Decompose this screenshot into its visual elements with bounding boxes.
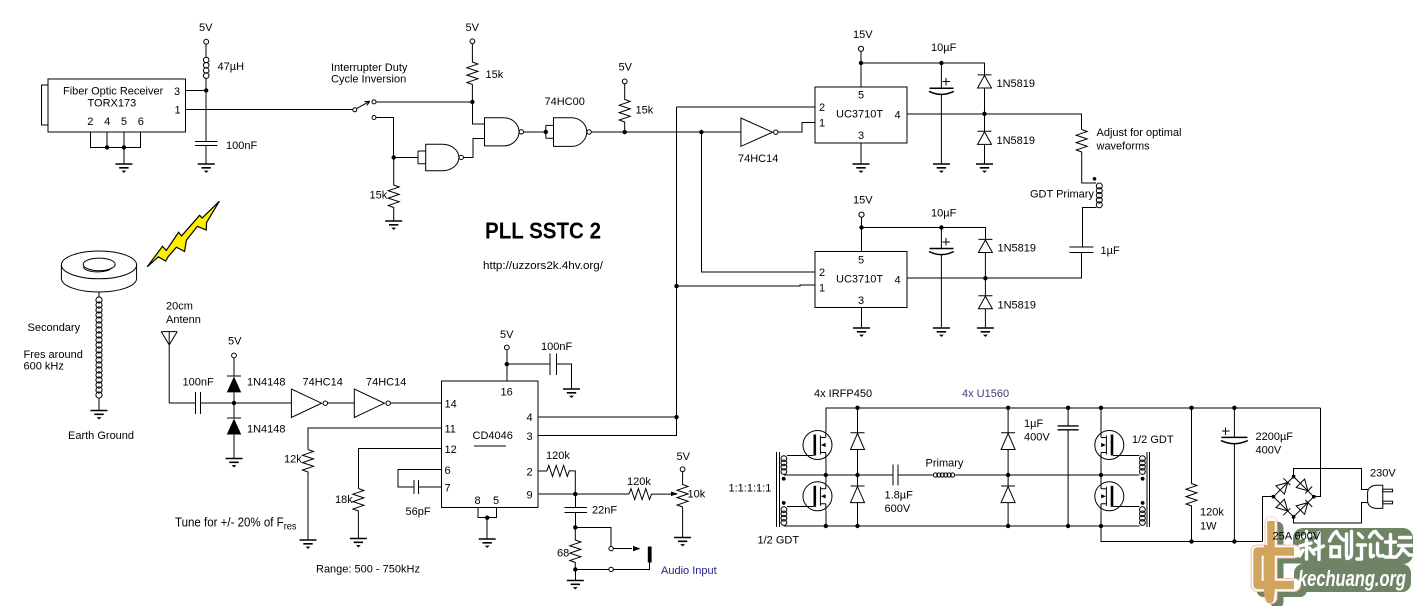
wire gate lead Q2 <box>787 506 814 508</box>
wire pin4 upper <box>907 114 1082 130</box>
wire node to 100nF <box>205 91 207 142</box>
ground (U4 pin3) <box>853 164 870 173</box>
wire node to NAND-inv bracket <box>394 156 418 158</box>
label 74HC14 U1a <box>303 377 343 389</box>
wire 15V lower to node <box>861 217 863 227</box>
wire U1b to pin14 <box>390 402 441 404</box>
label 15V upper <box>853 29 873 41</box>
svg-text:12k: 12k <box>284 454 302 466</box>
resistor 120k (pin2) <box>547 465 576 494</box>
value 12k <box>284 454 302 466</box>
value 120k pin9 <box>627 476 651 488</box>
wire pin3 upper to ground <box>860 143 862 164</box>
wire U3a out to upper driver pin1 <box>778 122 815 132</box>
terminal 5V circle clamp <box>232 353 237 358</box>
value 100nF CD4046 <box>541 341 572 353</box>
wire to jack tip <box>575 527 611 546</box>
diode 1N4148 upper <box>227 376 241 403</box>
capacitor 1uF (GDT) <box>1070 247 1094 252</box>
wire jack tip arrow <box>613 548 632 550</box>
svg-text:600V: 600V <box>885 503 911 515</box>
capacitor 1.8uF 600V <box>893 464 898 485</box>
svg-text:5V: 5V <box>228 336 242 348</box>
svg-text:8: 8 <box>475 495 481 507</box>
node pin5 bus dot <box>122 145 126 149</box>
svg-text:100nF: 100nF <box>183 377 214 389</box>
label 20cm Antenna <box>166 301 201 327</box>
polarity dot left lower <box>782 501 786 505</box>
svg-text:4: 4 <box>527 412 533 424</box>
node Q2 source junction <box>824 524 828 528</box>
svg-text:600 kHz: 600 kHz <box>24 361 64 373</box>
svg-text:waveforms: waveforms <box>1096 141 1151 153</box>
resistor 120k (pin9) <box>629 489 677 500</box>
wire throw1 to 15k node <box>376 101 472 103</box>
diode 1N4148 lower <box>227 403 241 458</box>
capacitor 1uF 400V <box>1058 408 1079 526</box>
svg-text:1/2 GDT: 1/2 GDT <box>758 535 800 547</box>
node pin4/diodes junction lower <box>983 276 987 280</box>
node 1uF bottom rail <box>1066 524 1070 528</box>
wire middle rail left <box>784 474 893 476</box>
wire bridge DC- <box>1262 497 1273 542</box>
resistor 15k pullup B <box>619 84 630 132</box>
wire pin11 to 12k <box>308 428 441 449</box>
svg-text:14: 14 <box>445 399 457 411</box>
wire junction to 74HC14 <box>234 402 291 404</box>
winding GDT right lower <box>1140 507 1146 526</box>
terminal 5V circle CD4046 <box>504 345 509 350</box>
wire Q3 drain <box>1100 408 1102 431</box>
wire pin4 lower <box>907 252 1082 278</box>
node Q4 source junction <box>1099 524 1103 528</box>
svg-text:Antenn: Antenn <box>166 314 201 326</box>
value 10uF upper <box>931 42 957 54</box>
label 5V A <box>466 22 480 34</box>
wire 100nF to junction <box>201 402 234 404</box>
label 74HC14 U3a <box>738 153 778 165</box>
svg-text:Secondary: Secondary <box>28 322 81 334</box>
label 4x IRFP450 <box>814 388 872 400</box>
jack body bar <box>648 547 652 563</box>
gate 74HC14 U1a <box>291 389 327 418</box>
label 5V CD4046 <box>500 329 514 341</box>
svg-text:Primary: Primary <box>926 458 964 470</box>
node pin3 junction <box>204 88 208 92</box>
wire 15V rail lower <box>862 228 986 252</box>
wire pin9 <box>538 493 629 495</box>
svg-text:Interrupter Duty: Interrupter Duty <box>331 62 408 74</box>
wire Q2 drain <box>825 475 827 482</box>
wire pin12 to 18k <box>358 449 441 489</box>
svg-text:5V: 5V <box>677 451 691 463</box>
bridge diode TR <box>1296 479 1312 493</box>
inductor 47uH <box>203 57 209 78</box>
wire Q4 source <box>1100 511 1102 526</box>
label 4x U1560 <box>962 388 1009 400</box>
svg-text:4x U1560: 4x U1560 <box>962 388 1009 400</box>
svg-text:Audio Input: Audio Input <box>661 565 717 577</box>
label Primary <box>926 458 964 470</box>
winding GDT left lower <box>781 507 787 526</box>
svg-text:TORX173: TORX173 <box>88 98 137 110</box>
watermark char tan <box>1385 535 1412 558</box>
svg-text:2: 2 <box>87 116 93 128</box>
capacitor 10uF upper <box>929 63 954 164</box>
wire gate lead Q4 <box>1113 506 1140 508</box>
terminal 5V circle pot <box>680 467 685 472</box>
watermark char ke <box>1300 532 1324 560</box>
wire Q2 source <box>825 511 827 526</box>
gate NAND U2c <box>546 118 592 147</box>
wire 5V to inductor <box>205 44 207 57</box>
terminal 15V circle lower <box>859 212 864 217</box>
pin 2 label upper <box>819 102 825 114</box>
svg-text:1N4148: 1N4148 <box>247 424 286 436</box>
ground (1N5819 upper) <box>976 164 993 173</box>
wire 15V to node <box>860 51 862 63</box>
inductor GDT Primary <box>1096 183 1102 208</box>
value 1uF GDT <box>1101 245 1120 257</box>
IC CD4046 box <box>441 381 538 508</box>
svg-text:Fres around: Fres around <box>24 349 83 361</box>
node 120k bottom rail <box>1189 539 1193 543</box>
node 1uF top rail <box>1066 406 1070 410</box>
pin 1 label upper <box>819 118 825 130</box>
ground (100nF TORX) <box>198 164 215 173</box>
ground (pot) <box>674 538 691 547</box>
label GDT Primary <box>1030 189 1094 201</box>
pin 5 label <box>493 495 499 507</box>
ground (audio) <box>567 581 584 590</box>
switch throw 1 terminal <box>372 100 376 104</box>
svg-text:1: 1 <box>175 104 181 116</box>
ground (15k pulldown) <box>385 221 402 230</box>
svg-text:5V: 5V <box>500 329 514 341</box>
node 15V upper junction <box>859 61 863 65</box>
node NAND-inv input junction <box>392 155 396 159</box>
value 1N5819 lower-bottom <box>998 300 1037 312</box>
switch SW1 common terminal <box>353 108 357 112</box>
polarity + 2200uF <box>1222 427 1229 434</box>
gate NAND U2a (inverter-wired) <box>418 144 463 170</box>
wire left bus (VCO signal) <box>677 107 816 417</box>
svg-text:5: 5 <box>493 495 499 507</box>
svg-text:20cm: 20cm <box>166 301 193 313</box>
wire U2c out to 74HC14 input <box>591 131 741 133</box>
potentiometer 10k <box>677 472 688 537</box>
wire bus to ground <box>123 147 125 163</box>
plug prong 2 <box>1383 501 1393 504</box>
node Q1 source junction <box>824 473 828 477</box>
node 15V lower junction <box>859 225 863 229</box>
label Secondary <box>28 322 81 334</box>
pin 2 label lower <box>819 267 825 279</box>
diode 1N5819 upper-top <box>978 75 992 114</box>
svg-text:74HC14: 74HC14 <box>738 153 778 165</box>
watermark char chuang <box>1330 532 1352 559</box>
node switch/15k junction <box>470 100 474 104</box>
gate 74HC14 U3a <box>741 118 778 146</box>
polarity dot GDT primary <box>1093 177 1097 181</box>
label 74HC00 <box>545 96 585 108</box>
wire 15V rail upper <box>861 63 985 87</box>
pin 16 label <box>501 387 513 399</box>
svg-text:UC3710T: UC3710T <box>836 109 883 121</box>
wire 100nF to ground <box>557 364 572 388</box>
transformer GDT left core <box>777 452 780 527</box>
svg-text:9: 9 <box>527 490 533 502</box>
value 1N5819 upper-bottom <box>997 135 1036 147</box>
transistor Q1 IRFP450 upper-left <box>803 431 832 460</box>
polarity + lower 10uF <box>943 238 951 245</box>
value 56pF <box>406 506 431 518</box>
wire GDT primary to 1uF <box>1083 207 1097 247</box>
svg-text:120k: 120k <box>546 450 570 462</box>
svg-text:15k: 15k <box>636 105 654 117</box>
wire pin6 pin7 bracket <box>398 470 441 488</box>
terminal jack tip circle <box>609 546 613 550</box>
wire toroid to secondary <box>98 292 100 298</box>
label 1/2 GDT right <box>1132 434 1174 446</box>
label Fres around 600 kHz <box>24 349 83 373</box>
label TORX173 <box>88 98 137 110</box>
arrow jack tip <box>633 546 641 551</box>
node 5V (pullup A) <box>486 69 504 81</box>
wire pins 8 5 to ground <box>478 508 497 539</box>
node 15k/signal junction <box>623 130 627 134</box>
diode 1N5819 lower-bottom <box>978 278 992 327</box>
svg-text:100nF: 100nF <box>226 140 257 152</box>
value 22nF <box>592 505 617 517</box>
svg-text:http://uzzors2k.4hv.org/: http://uzzors2k.4hv.org/ <box>483 260 604 272</box>
svg-text:Range: 500 - 750kHz: Range: 500 - 750kHz <box>316 564 420 576</box>
svg-text:1N5819: 1N5819 <box>997 78 1036 90</box>
IC UC3710T lower box <box>815 252 907 308</box>
svg-text:1: 1 <box>819 118 825 130</box>
node right-bus top junction <box>699 130 703 134</box>
svg-text:400V: 400V <box>1256 445 1282 457</box>
pin 2 label <box>527 467 533 479</box>
antenna symbol <box>161 332 177 403</box>
svg-text:18k: 18k <box>335 494 353 506</box>
pin 3 label <box>527 431 533 443</box>
gate 74HC14 U1b <box>354 389 390 418</box>
pin 4 label lower <box>895 275 901 287</box>
watermark kechuang.org <box>1298 566 1406 591</box>
bridge corner dots <box>1272 475 1316 519</box>
svg-text:4: 4 <box>895 110 901 122</box>
svg-text:3: 3 <box>858 295 864 307</box>
value 68 <box>557 548 569 560</box>
bridge diode BR <box>1296 500 1312 514</box>
label Audio Input <box>661 565 717 577</box>
svg-text:kechuang.org: kechuang.org <box>1298 566 1406 591</box>
label Tune for +/- 20% of Fres <box>175 516 297 533</box>
wire Q3 source <box>1100 460 1102 476</box>
wire 68 to ground <box>574 569 576 580</box>
svg-text:12: 12 <box>445 444 457 456</box>
wiper arrow into pot <box>671 492 678 497</box>
underline CD4046 <box>474 445 506 447</box>
label CD4046 <box>473 430 513 442</box>
ground (12k) <box>300 540 317 549</box>
capacitor 100nF (TORX) <box>195 141 218 145</box>
svg-text:Adjust for optimal: Adjust for optimal <box>1097 127 1182 139</box>
lightning bolt <box>147 201 219 267</box>
wire NAND U2a out to U2b input2 <box>463 139 484 158</box>
polarity dot right lower <box>1141 501 1145 505</box>
value 1.8uF 600V <box>885 490 914 516</box>
pin 7 label <box>445 483 451 495</box>
svg-text:1N5819: 1N5819 <box>998 300 1037 312</box>
bridge diode TL <box>1276 478 1290 494</box>
wire top rail DC+ <box>826 408 1321 431</box>
node antenna junction <box>232 401 236 405</box>
svg-text:5: 5 <box>121 116 127 128</box>
node left diode mid rail <box>855 473 859 477</box>
diode 1N5819 upper-bottom <box>978 114 992 164</box>
IC fiber optic receiver TORX173 box <box>48 79 186 132</box>
watermark glyph tan <box>1258 521 1295 600</box>
pin 3 label upper <box>858 130 864 142</box>
svg-text:5: 5 <box>858 90 864 102</box>
transformer GDT right core <box>1147 452 1150 527</box>
svg-text:6: 6 <box>138 116 144 128</box>
pin 3 label lower <box>858 295 864 307</box>
wire pin 1 to switch <box>186 108 353 110</box>
label UC3710T lower <box>836 274 883 286</box>
svg-text:Cycle Inversion: Cycle Inversion <box>331 74 406 86</box>
pin numbers 2 4 5 6 <box>87 116 144 128</box>
svg-text:10k: 10k <box>688 489 706 501</box>
ground (10uF upper) <box>933 164 950 173</box>
wire pin16 node to 100nF <box>507 363 550 365</box>
svg-text:Earth Ground: Earth Ground <box>68 430 134 442</box>
wire bottom rail <box>784 525 1139 527</box>
node 68/ground junction <box>573 567 577 571</box>
svg-text:120k: 120k <box>1200 507 1224 519</box>
toroid topload <box>61 251 136 292</box>
node right diode mid rail <box>1006 473 1010 477</box>
label 15V lower <box>853 195 873 207</box>
label 74HC14 U1b <box>366 377 406 389</box>
wire 5V to pin16 <box>506 350 508 381</box>
wire bottom rail to DC- rail <box>1101 526 1262 542</box>
label 1/2 GDT left <box>758 535 800 547</box>
polarity + upper 10uF <box>943 78 951 85</box>
wire gate lead Q3 <box>1113 455 1140 457</box>
wire 5V to diode <box>233 358 235 376</box>
svg-text:74HC00: 74HC00 <box>545 96 585 108</box>
diode 1N5819 lower-top <box>978 239 992 278</box>
wire pin4 to bus <box>538 416 676 418</box>
wire junction to NAND input1 <box>472 102 484 124</box>
svg-text:1.8µF: 1.8µF <box>885 490 914 502</box>
wire gate lead Q1 <box>787 455 814 457</box>
svg-text:Fiber Optic Receiver: Fiber Optic Receiver <box>63 86 164 98</box>
value 1uF 400V <box>1024 418 1050 444</box>
svg-text:1/2 GDT: 1/2 GDT <box>1132 434 1174 446</box>
svg-text:5V: 5V <box>619 62 633 74</box>
resistor 68 <box>570 527 581 569</box>
resistor adjust (GDT damping) <box>1076 130 1087 184</box>
svg-text:1:1:1:1:1: 1:1:1:1:1 <box>729 483 772 495</box>
label Fiber Optic Receiver <box>63 86 164 98</box>
wire pin 3 to node <box>186 90 207 92</box>
node pins85 junction <box>485 516 489 520</box>
watermark green blob row1 <box>1293 528 1413 564</box>
wire inductor to node <box>205 78 207 90</box>
title PLL SSTC 2 <box>485 218 601 244</box>
capacitor 10uF lower <box>929 228 954 328</box>
resistor 12k <box>303 450 314 540</box>
svg-text:11: 11 <box>445 424 456 436</box>
node pin4 bus junction <box>674 415 678 419</box>
diode U1560 left-bottom <box>851 475 865 526</box>
svg-text:1µF: 1µF <box>1101 245 1120 257</box>
transistor Q3 IRFP450 upper-right <box>1095 431 1124 460</box>
wire middle rail right <box>898 474 1139 476</box>
node 10uF top junction upper <box>939 61 943 65</box>
watermark green blob row2 <box>1294 564 1411 592</box>
transistor Q2 IRFP450 lower-left <box>803 482 832 511</box>
node 120k top rail <box>1189 406 1193 410</box>
resistor 120k 1W <box>1186 408 1197 542</box>
ground (100nF CD4046) <box>563 389 580 398</box>
svg-text:22nF: 22nF <box>592 505 617 517</box>
svg-text:4: 4 <box>104 116 110 128</box>
pin 5 label lower <box>858 255 864 267</box>
svg-text:15V: 15V <box>853 195 873 207</box>
svg-text:1µF: 1µF <box>1024 418 1043 430</box>
svg-text:3: 3 <box>858 130 864 142</box>
svg-text:2: 2 <box>527 467 533 479</box>
terminal jack sleeve circle <box>609 567 613 571</box>
value 10k <box>688 489 706 501</box>
wire throw2 to lower node <box>376 118 394 158</box>
value 1N5819 lower-top <box>998 243 1037 255</box>
svg-text:2: 2 <box>819 102 825 114</box>
terminal 15V circle upper <box>858 46 863 51</box>
label Adjust for optimal waveforms <box>1096 127 1182 153</box>
value 18k <box>335 494 353 506</box>
svg-text:230V: 230V <box>1370 468 1396 480</box>
svg-text:1N4148: 1N4148 <box>247 377 286 389</box>
svg-text:2: 2 <box>819 267 825 279</box>
diode U1560 right-top <box>1001 408 1015 475</box>
svg-text:4x IRFP450: 4x IRFP450 <box>814 388 872 400</box>
wire left bus to lower driver pin1 <box>677 285 816 286</box>
node pin4 bus dot <box>105 145 109 149</box>
node pin16 junction <box>505 362 509 366</box>
svg-text:3: 3 <box>174 86 180 98</box>
wire U1a to U1b <box>328 402 355 404</box>
label 25A 600V <box>1273 531 1321 543</box>
node Q3 drain rail <box>1099 406 1103 410</box>
wire right bus to lower driver pin2 <box>701 132 815 272</box>
value 10uF lower <box>931 208 957 220</box>
switch throw 2 terminal <box>372 116 376 120</box>
pin 11 label <box>445 424 456 436</box>
capacitor 22nF <box>565 494 588 527</box>
pin 3 label <box>174 86 180 98</box>
label 230V <box>1370 468 1396 480</box>
capacitor 2200uF 400V <box>1221 408 1248 542</box>
label UC3710T upper <box>836 109 883 121</box>
svg-text:5: 5 <box>858 255 864 267</box>
svg-text:GDT Primary: GDT Primary <box>1030 189 1094 201</box>
